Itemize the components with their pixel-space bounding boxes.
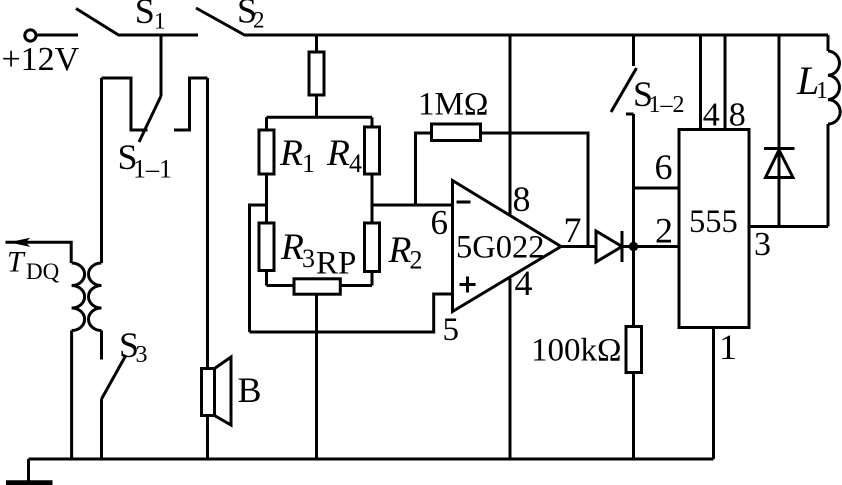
svg-text:1MΩ: 1MΩ [418,87,488,123]
svg-text:R: R [280,227,304,268]
svg-text:5G022: 5G022 [456,230,544,266]
svg-text:1: 1 [302,149,315,178]
svg-text:1: 1 [816,78,828,104]
svg-text:1–2: 1–2 [649,92,685,118]
svg-text:1: 1 [154,9,166,34]
svg-text:R: R [279,133,303,174]
svg-text:4: 4 [515,263,533,303]
svg-text:8: 8 [513,179,531,219]
svg-text:B: B [238,370,262,410]
svg-text:4: 4 [703,97,720,134]
svg-text:R: R [326,133,350,174]
svg-text:555: 555 [689,204,738,240]
svg-text:2: 2 [253,8,265,33]
svg-text:2: 2 [655,211,673,251]
svg-text:1–1: 1–1 [133,155,172,184]
svg-text:T: T [7,246,26,279]
svg-text:6: 6 [431,203,449,242]
svg-text:1: 1 [719,327,737,367]
svg-text:3: 3 [754,226,771,263]
svg-text:3: 3 [136,342,148,368]
svg-text:S: S [135,0,155,31]
svg-text:2: 2 [410,246,423,275]
svg-text:R: R [388,230,412,271]
svg-text:RP: RP [316,246,356,282]
svg-text:8: 8 [729,97,746,134]
svg-text:100kΩ: 100kΩ [531,333,622,369]
svg-text:7: 7 [564,210,582,250]
svg-text:DQ: DQ [26,259,60,284]
svg-text:5: 5 [443,312,460,348]
svg-text:3: 3 [302,244,315,273]
svg-text:4: 4 [349,149,362,178]
svg-text:6: 6 [655,147,673,187]
svg-text:+12V: +12V [2,41,80,78]
